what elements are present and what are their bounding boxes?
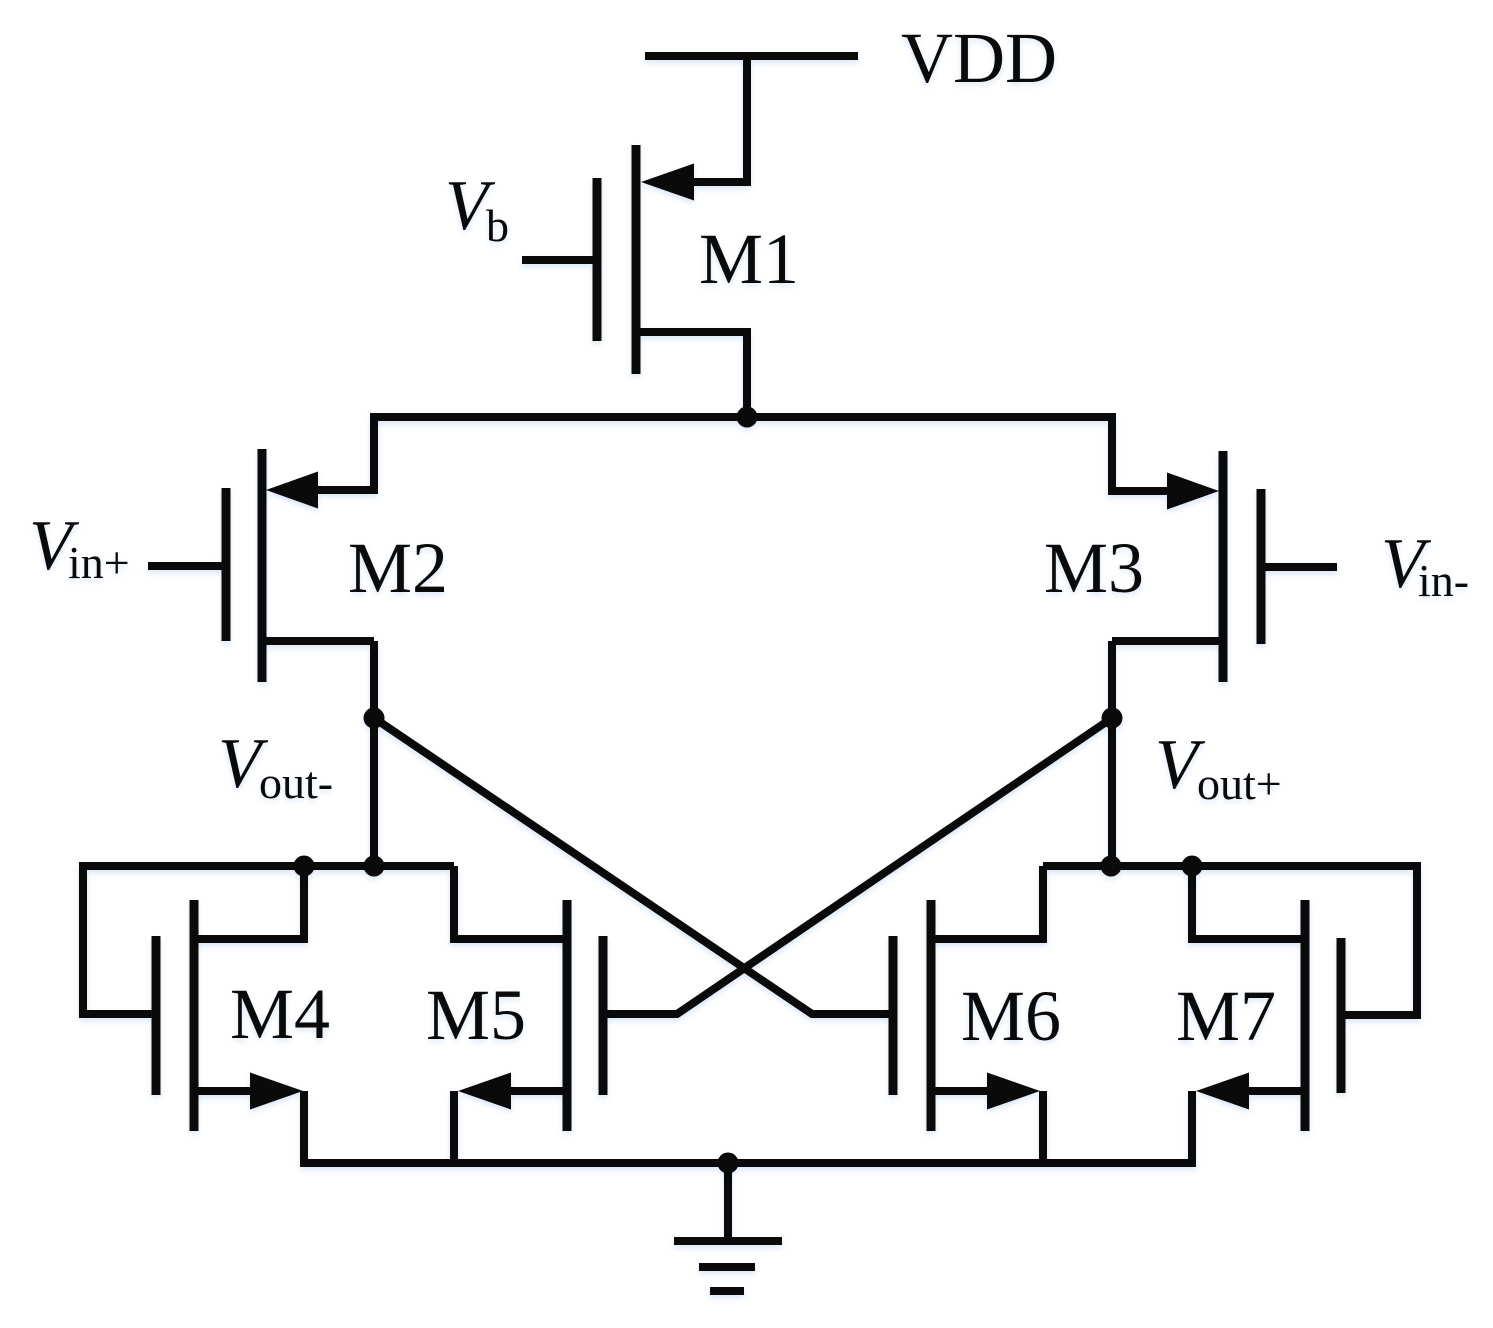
transistor M5 source terminal — [506, 1087, 567, 1095]
junction M2 drain on Vout- rail — [364, 856, 385, 877]
wire M1 drain to tail rail — [743, 332, 751, 417]
transistor M6 source terminal — [931, 1087, 992, 1095]
transistor M5 drain terminal — [454, 866, 567, 939]
transistor M3 channel bar — [1219, 451, 1228, 682]
transistor M4 gate bar — [152, 936, 161, 1095]
svg-text:M3: M3 — [1044, 528, 1144, 608]
junction M7 drain on Vout+ rail — [1182, 856, 1203, 877]
svg-text:VDD: VDD — [901, 18, 1057, 98]
wire M6 source to ground rail — [1039, 1091, 1047, 1167]
wire cross-couple Vout- to M6 gate — [374, 718, 889, 1014]
transistor M2 drain terminal — [262, 637, 374, 645]
junction ground tap — [718, 1153, 739, 1174]
ground bar 2 — [699, 1263, 755, 1271]
transistor M3 drain terminal — [1112, 637, 1223, 645]
svg-text:in-: in- — [1418, 555, 1469, 606]
transistor M2 gate bar — [222, 488, 231, 641]
wire Vout+ rail — [1043, 862, 1417, 870]
transistor M5 source arrow — [458, 1073, 511, 1110]
wire M2 drain down to Vout- rail — [370, 641, 378, 870]
svg-text:M6: M6 — [961, 976, 1061, 1056]
transistor M6 gate bar — [889, 936, 898, 1095]
wire cross-couple Vout+ to M5 gate — [602, 718, 1112, 1014]
transistor M2 source arrow — [266, 472, 318, 509]
transistor M3 source arrow — [1167, 473, 1219, 510]
ground bar 3 — [710, 1287, 744, 1295]
wire M5 source to ground rail — [450, 1091, 458, 1167]
transistor M3 gate bar — [1257, 489, 1266, 644]
svg-text:M7: M7 — [1176, 976, 1276, 1056]
transistor M1 gate bar — [593, 178, 602, 341]
wire Vb to M1 gate — [522, 256, 593, 264]
transistor M1 drain terminal — [636, 328, 751, 336]
transistor M5 channel bar — [563, 900, 572, 1131]
transistor M4 source terminal — [194, 1087, 255, 1095]
wire VDD to M1 source — [690, 56, 747, 182]
wire M4 source to ground rail — [300, 1091, 308, 1167]
svg-text:M1: M1 — [699, 219, 799, 299]
svg-text:M2: M2 — [348, 528, 448, 608]
transistor M5 gate bar — [599, 936, 608, 1095]
transistor M1 channel bar — [632, 145, 641, 374]
transistor M6 source arrow — [987, 1073, 1040, 1110]
svg-text:in+: in+ — [68, 537, 130, 588]
junction node Vout+ tap — [1102, 708, 1123, 729]
wire rail to M3 source — [1112, 413, 1171, 491]
wire Vout- rail — [83, 862, 454, 870]
transistor M6 channel bar — [927, 900, 936, 1131]
svg-text:out+: out+ — [1197, 758, 1282, 809]
transistor M7 source arrow — [1196, 1073, 1249, 1110]
junction M3 drain on Vout+ rail — [1101, 856, 1122, 877]
svg-text:M5: M5 — [426, 975, 526, 1055]
wire M7 diode feedback — [1345, 862, 1417, 1015]
wire ground rail — [304, 1159, 1192, 1167]
transistor M4 source arrow — [250, 1073, 303, 1110]
wire Vin- to M3 gate — [1265, 563, 1337, 571]
transistor M7 source terminal — [1244, 1087, 1305, 1095]
wire M4 diode feedback — [83, 862, 152, 1014]
transistor M7 channel bar — [1301, 900, 1310, 1131]
junction M4 drain on Vout- rail — [294, 856, 315, 877]
wire tail rail — [374, 413, 1112, 421]
svg-text:b: b — [486, 200, 509, 251]
junction tail node — [737, 407, 758, 428]
transistor M6 drain terminal — [931, 866, 1043, 939]
ground bar 1 — [674, 1237, 782, 1245]
transistor M4 channel bar — [190, 900, 199, 1131]
VDD supply bar — [645, 52, 858, 60]
wire M3 drain down to Vout+ rail — [1108, 641, 1116, 870]
svg-text:out-: out- — [259, 757, 333, 808]
wire rail to M2 source — [315, 413, 374, 490]
wire Vin+ to M2 gate — [148, 562, 222, 570]
ground stem — [724, 1163, 732, 1241]
transistor M7 gate bar — [1337, 938, 1346, 1093]
wire M7 source to ground rail — [1188, 1091, 1196, 1167]
transistor M2 channel bar — [258, 449, 267, 682]
junction node Vout- tap — [364, 708, 385, 729]
svg-text:M4: M4 — [230, 974, 330, 1054]
transistor M4 drain terminal — [194, 866, 304, 939]
transistor M1 source arrow — [641, 164, 694, 201]
transistor M7 drain terminal — [1192, 866, 1305, 939]
